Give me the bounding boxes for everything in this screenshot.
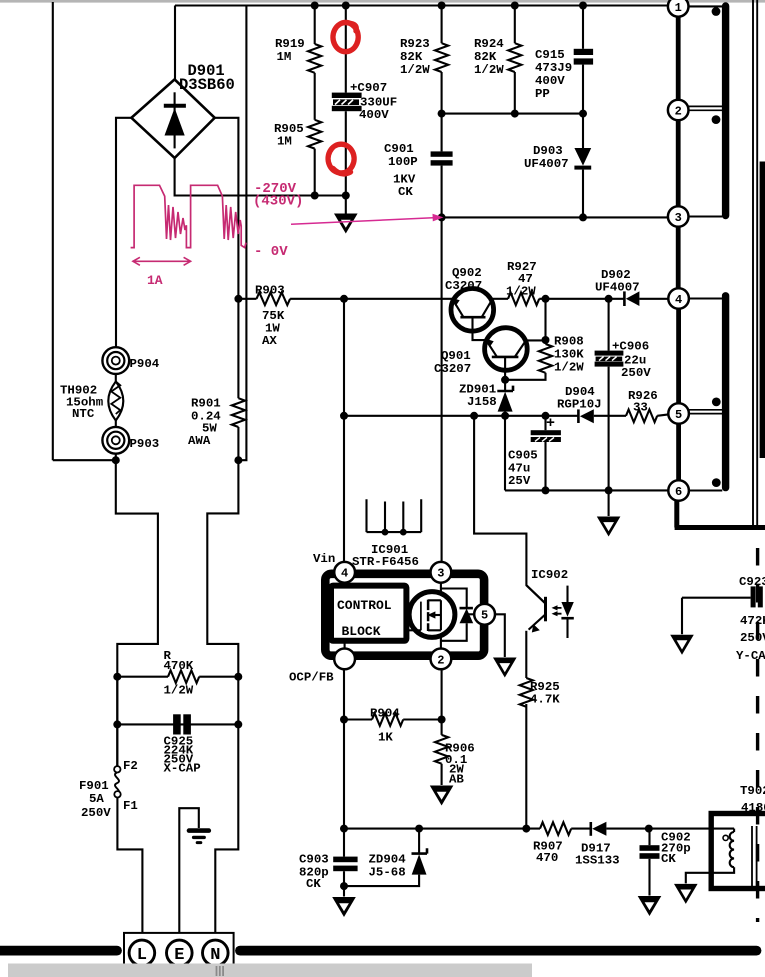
svg-text:472K: 472K [740, 614, 765, 628]
wire C907 to -270V line [345, 111, 347, 195]
winding taps pin6 [689, 489, 722, 491]
resistor R923 [435, 43, 448, 72]
dashed isolation line [756, 548, 759, 922]
wire C903 bottom [343, 871, 345, 896]
earth ground symbol [189, 831, 209, 843]
resistor R905 [308, 120, 321, 149]
ground (primary, below C907 node) [334, 214, 358, 234]
label R906 [445, 742, 475, 787]
optocoupler IC902 phototransistor [526, 585, 545, 632]
svg-text:4: 4 [341, 567, 348, 581]
winding taps pin5 [689, 410, 722, 414]
svg-text:UF4007: UF4007 [595, 281, 640, 295]
thin box around MOSFET and zener [441, 589, 467, 641]
wire P903 down and left loop neck [116, 454, 158, 767]
pin circle 6 [668, 480, 689, 501]
svg-text:D903: D903 [533, 144, 563, 158]
wire R923 column [441, 6, 443, 44]
wire HV rail from bus down [238, 6, 246, 461]
svg-text:E: E [174, 946, 184, 965]
wire pin-6 line y=490.4 [505, 489, 668, 491]
wire R924 column [514, 6, 516, 44]
svg-text:5: 5 [675, 408, 682, 422]
wire bridge right vertex lead down [215, 118, 239, 398]
wire bridge left vertex lead [116, 118, 131, 347]
svg-text:RGP10J: RGP10J [557, 398, 602, 412]
svg-text:82K: 82K [400, 50, 423, 64]
wire Q902 base lead down [473, 317, 488, 340]
capacitor C903 [333, 857, 357, 872]
svg-text:5A: 5A [89, 792, 104, 806]
label C907 [350, 81, 397, 122]
wire ZD904 top [418, 829, 420, 854]
pin circle 2 [668, 100, 689, 121]
wire D904 to R926 [594, 415, 626, 417]
wire TH902 to P903 [115, 421, 117, 428]
svg-text:J5-68: J5-68 [369, 866, 406, 880]
label R927 [506, 260, 537, 299]
red marker circle upper [333, 23, 358, 52]
wire Q901 base lead down [504, 357, 506, 391]
wire control block to OCP pin [344, 641, 346, 649]
ground (below C906 node) [597, 517, 621, 537]
svg-text:400V: 400V [359, 108, 389, 122]
svg-text:1: 1 [675, 1, 682, 15]
wire horizontal bus y=113.6 [442, 113, 583, 115]
wire C906 column [608, 299, 610, 351]
winding polarity dots [712, 7, 721, 16]
svg-text:250V: 250V [81, 806, 111, 820]
wire below R901 to node [207, 427, 238, 941]
svg-text:R904: R904 [370, 707, 400, 721]
wire bridge bottom to -270V line [175, 158, 346, 196]
mains connector box L E N [124, 933, 234, 966]
label F901 [79, 779, 111, 820]
wire to primary ground [345, 196, 347, 214]
label CONTROL BLOCK [337, 598, 392, 639]
wire node down to IC902 collector [474, 416, 545, 604]
ground (below C903) [332, 897, 356, 917]
pin circle 5 [668, 403, 689, 424]
wire R908 bottom to Q901 base node [505, 373, 545, 380]
label C901 [384, 142, 418, 199]
resistor R907 [540, 822, 571, 835]
wire R927 left [492, 298, 508, 300]
wire ZD904 bottom to C903 node [344, 875, 419, 887]
label C902 [661, 831, 691, 867]
label R908 [554, 335, 584, 375]
IC901 unused pins comb [367, 499, 422, 535]
svg-text:J158: J158 [467, 395, 497, 409]
svg-text:1/2W: 1/2W [400, 63, 430, 77]
wire C905 column [544, 416, 546, 430]
magenta pointer arrow [291, 214, 444, 224]
wire E to earth [179, 808, 199, 941]
svg-text:AX: AX [262, 334, 277, 348]
T902 primary coil [723, 829, 734, 868]
wire C925 line [117, 723, 238, 725]
ground (pin 5) [493, 658, 517, 678]
wire R904 left [344, 718, 372, 720]
svg-text:25V: 25V [508, 474, 531, 488]
wire R907 to D917 [571, 828, 590, 830]
resistor R926 [626, 410, 657, 423]
connector P904 [102, 347, 129, 374]
label R907 [533, 840, 563, 866]
wire OCP/C903 node down [343, 720, 345, 857]
pin circle 3 [668, 206, 689, 227]
diode inside D901 [164, 92, 186, 148]
label D917 [575, 842, 620, 868]
resistor R901 [232, 398, 245, 427]
svg-text:STR-F6456: STR-F6456 [352, 555, 419, 569]
capacitor C905 [531, 430, 561, 442]
wire C901 column [441, 114, 443, 152]
T902 core lines [752, 826, 757, 886]
svg-text:C923: C923 [739, 575, 765, 589]
label C905 [508, 415, 555, 488]
wire C905 bottom [544, 442, 546, 490]
bottom gray strip [8, 964, 532, 977]
wire Q901 collector to R908 node [526, 339, 546, 341]
svg-text:Q902: Q902 [452, 266, 482, 280]
svg-text:R919: R919 [275, 37, 305, 51]
wire y=217.4 to pin 3 of transformer [442, 216, 668, 218]
wire pin5 to ground [495, 614, 505, 657]
wire R905 to -270V line [314, 149, 316, 196]
svg-text:4.7K: 4.7K [530, 693, 560, 707]
capacitor C906 [595, 351, 624, 367]
label C925 [164, 735, 201, 776]
bridge rectifier D901 diamond [131, 79, 214, 158]
svg-text:C901: C901 [384, 142, 414, 156]
bottom thick bar right [240, 946, 757, 956]
connector P903 [102, 427, 129, 454]
svg-text:1/2W: 1/2W [506, 285, 536, 299]
label D903 [524, 144, 569, 171]
svg-text:BLOCK: BLOCK [342, 624, 381, 639]
svg-text:1A: 1A [147, 273, 163, 288]
svg-text:R908: R908 [554, 335, 584, 349]
wire IC902 emitter down [525, 631, 527, 678]
svg-text:ZD904: ZD904 [369, 853, 407, 867]
IC901 outer thick box [325, 574, 484, 656]
winding taps pin2 [689, 106, 723, 110]
svg-text:- 0V: - 0V [254, 244, 288, 260]
svg-text:3: 3 [675, 211, 682, 225]
transistor Q901 [485, 328, 528, 371]
wire F1 to L [117, 798, 142, 942]
wire node down to secondary ground [608, 490, 610, 516]
red marker circle lower [328, 144, 354, 174]
label R925 [530, 680, 560, 707]
top border gray line [0, 0, 765, 3]
wire Vin column R903 node to pin4 [343, 299, 345, 562]
transformer T901 primary winding bars [722, 6, 729, 488]
wire R925 bottom [525, 704, 527, 829]
capacitor C907 [332, 93, 362, 112]
svg-text:AWA: AWA [188, 434, 211, 448]
svg-text:1K: 1K [378, 731, 393, 745]
wire R927 node down to Q901 collector [544, 299, 546, 344]
diode D904 [578, 409, 593, 423]
svg-text:IC902: IC902 [531, 568, 568, 582]
transformer T901 core lines [753, 0, 757, 527]
svg-text:P903: P903 [130, 437, 160, 451]
svg-text:1/2W: 1/2W [164, 684, 194, 698]
svg-text:33: 33 [633, 401, 648, 415]
resistor R925 [520, 678, 533, 707]
terminal L [129, 940, 155, 966]
pin 3 circle [431, 562, 452, 583]
capacitor C901 [431, 151, 453, 165]
wire C907 column from bus [345, 6, 347, 93]
winding taps pin1 [689, 5, 723, 7]
label ZD904 [369, 853, 407, 880]
svg-text:PP: PP [535, 87, 550, 101]
svg-text:UF4007: UF4007 [524, 157, 569, 171]
resistor R903 [257, 293, 291, 306]
svg-text:130K: 130K [554, 348, 584, 362]
svg-text:3: 3 [437, 567, 444, 581]
wire C906 bottom to pin-6 line [608, 367, 610, 491]
wire R903 to Q902 base line [290, 298, 453, 300]
wire left column between nodes [116, 677, 118, 767]
zener inside IC901 [460, 608, 476, 623]
wire R919 column from bus [314, 6, 316, 45]
label R 470K [164, 649, 194, 698]
wire C902 bottom [648, 859, 650, 896]
wire R926 to pin 5 [657, 414, 668, 415]
diode D903 [574, 114, 591, 218]
wire R903 line [238, 298, 256, 300]
wire left outer vertical [52, 2, 54, 460]
wire R906 to ground [441, 764, 443, 785]
label C923 [736, 575, 765, 663]
svg-text:1/2W: 1/2W [554, 361, 584, 375]
label R903 [255, 284, 285, 349]
resistor R924 [508, 43, 521, 72]
wire R904 right [403, 718, 441, 720]
svg-text:470K: 470K [164, 659, 194, 673]
resistor R906 [435, 735, 448, 764]
label R923 [400, 37, 430, 77]
label R926 [628, 389, 658, 415]
resistor R908 [539, 344, 552, 373]
svg-text:Vin: Vin [313, 552, 335, 566]
diode D917 [591, 822, 607, 836]
zener ZD904 [412, 848, 428, 874]
svg-text:+: + [546, 415, 555, 432]
label TH902 [60, 384, 103, 422]
svg-text:100P: 100P [388, 155, 418, 169]
svg-text:F1: F1 [123, 799, 138, 813]
svg-text:CK: CK [306, 877, 321, 891]
ground (C923) [670, 635, 694, 655]
terminal N [203, 940, 229, 966]
svg-text:C903: C903 [299, 853, 329, 867]
label R924 [474, 37, 504, 77]
label C915 [535, 48, 572, 101]
bottom thick bar left [0, 946, 117, 956]
svg-text:4180: 4180 [741, 801, 765, 815]
wire bottom feedback line y=828.6 [344, 828, 540, 830]
resistor R919 [308, 44, 321, 73]
capacitor C915 [574, 49, 593, 65]
svg-text:C915: C915 [535, 48, 565, 62]
svg-text:6: 6 [675, 485, 682, 499]
label R905 [274, 122, 304, 149]
pin 2 circle [431, 649, 452, 670]
wire C902 column [648, 829, 650, 846]
svg-text:R903: R903 [255, 284, 285, 298]
wire pin2 down to R904 node [441, 669, 443, 735]
svg-text:X-CAP: X-CAP [164, 762, 201, 776]
capacitor C902 [640, 845, 660, 859]
MOSFET circle U1 [406, 592, 455, 638]
magenta 1A dimension arrow [133, 257, 191, 265]
control block inner box [331, 586, 406, 641]
svg-text:250V: 250V [740, 631, 765, 645]
resistor R 470K [168, 670, 199, 683]
svg-text:2: 2 [675, 104, 682, 118]
capacitor C925 X-CAP [173, 714, 191, 734]
svg-text:2: 2 [437, 653, 444, 667]
zener ZD901 [497, 386, 513, 416]
svg-text:Q901: Q901 [441, 349, 471, 363]
label R919 [275, 37, 305, 64]
svg-text:L: L [137, 946, 147, 965]
wire C901 bottom [441, 166, 443, 218]
label D904 [557, 385, 602, 412]
svg-text:P904: P904 [130, 357, 160, 371]
svg-text:R901: R901 [191, 397, 221, 411]
svg-text:1SS133: 1SS133 [575, 854, 620, 868]
svg-text:T902: T902 [740, 784, 765, 798]
optocoupler IC902 LED [561, 586, 573, 638]
transformer T901 right winding bar [760, 162, 765, 459]
svg-text:+C906: +C906 [612, 340, 649, 354]
svg-text:CK: CK [398, 185, 413, 199]
pin circle 1 [668, 0, 689, 17]
wire top bus [175, 4, 668, 6]
wire T902 coil bottom to ground [686, 867, 734, 883]
svg-text:F901: F901 [79, 779, 109, 793]
svg-text:AB: AB [449, 773, 464, 787]
label Q902 [445, 266, 482, 293]
label Q901 [434, 349, 471, 376]
pin 5 circle [474, 604, 495, 625]
pin 4 circle [334, 562, 355, 583]
winding taps pin4 [689, 297, 722, 299]
wire pin4 to control block [344, 582, 346, 586]
capacitor C923 Y-CAP [682, 586, 763, 607]
svg-text:4: 4 [675, 293, 682, 307]
wire P904 to TH902 [115, 374, 117, 382]
svg-text:F2: F2 [123, 759, 138, 773]
svg-text:Y-CAP: Y-CAP [736, 649, 765, 663]
ground (below R906) [430, 786, 454, 806]
label IC901 [352, 543, 419, 569]
svg-text:82K: 82K [474, 50, 497, 64]
wire R924 bottom [514, 72, 516, 114]
strip marks [217, 966, 224, 976]
winding taps pin3 [689, 215, 723, 217]
svg-text:5: 5 [481, 609, 488, 623]
label ZD901 [459, 383, 497, 410]
wire secondary feedback line y=415.8 [344, 415, 578, 417]
svg-text:D3SB60: D3SB60 [179, 76, 235, 94]
svg-text:NTC: NTC [72, 407, 95, 421]
label R901 [188, 397, 221, 449]
svg-text:OCP/FB: OCP/FB [289, 671, 334, 685]
svg-text:473J9: 473J9 [535, 61, 572, 75]
wire C915 column [582, 6, 584, 49]
resistor R927 [508, 293, 539, 306]
svg-text:CONTROL: CONTROL [337, 598, 392, 613]
svg-text:+C907: +C907 [350, 81, 387, 95]
label C906 [612, 340, 651, 381]
thermistor TH902 [108, 382, 123, 421]
label D902 [595, 268, 640, 295]
wire long vertical C901 node to IC901 pin3 [441, 217, 443, 562]
wire R923 bottom [441, 72, 443, 114]
wire D917 to C902 node and T902 [606, 828, 734, 830]
wire bus corner down to bridge top [174, 6, 176, 81]
svg-text:C3207: C3207 [445, 279, 482, 293]
transformer T901 pin bus [676, 17, 681, 481]
fuse F901 with terminals F2 F1 [114, 766, 121, 797]
svg-text:1/2W: 1/2W [474, 63, 504, 77]
wire R919 to R905 [314, 73, 316, 120]
wire OCP pin down [343, 669, 345, 719]
svg-text:(430V): (430V) [253, 194, 303, 210]
wire C923 to ground [681, 598, 683, 635]
label T902 [740, 784, 765, 815]
resistor R904 [372, 713, 403, 726]
transistor Q902 [451, 289, 494, 332]
transformer T902 box [711, 814, 765, 889]
diode D902 [624, 291, 668, 306]
svg-text:N: N [210, 946, 220, 965]
wire pin3 through MOSFET to pin2 [440, 582, 442, 649]
svg-text:C905: C905 [508, 449, 538, 463]
magenta waveform sketch [131, 185, 246, 247]
pin OCP/FB circle [334, 649, 355, 670]
svg-text:1M: 1M [277, 50, 292, 64]
wire C915 bottom [582, 65, 584, 114]
svg-text:1M: 1M [277, 135, 292, 149]
label R904 [370, 707, 400, 745]
wire R 470K right [199, 676, 238, 678]
svg-text:C3207: C3207 [434, 362, 471, 376]
label C903 [299, 853, 329, 892]
wire left bottom horizontal to P903 node [53, 459, 116, 461]
ground (below C902) [638, 896, 662, 916]
wire R927 to D902 [539, 298, 625, 300]
optocoupler IC902 light arrows [552, 605, 562, 616]
svg-text:470: 470 [536, 851, 558, 865]
wire thick from pin6 to bottom-right [675, 501, 765, 528]
terminal E [167, 940, 193, 966]
svg-text:250V: 250V [621, 366, 651, 380]
svg-text:CK: CK [661, 852, 676, 866]
pin circle 4 [668, 288, 689, 309]
ground (T902) [674, 884, 698, 904]
svg-text:R924: R924 [474, 37, 504, 51]
svg-text:R923: R923 [400, 37, 430, 51]
wire ZD901 node down to pin-6 line [504, 416, 506, 491]
